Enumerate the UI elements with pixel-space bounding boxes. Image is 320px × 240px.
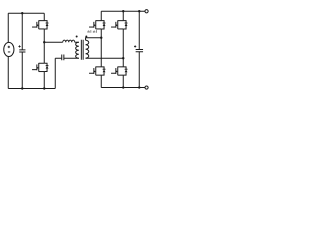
wire: Q5 source to bottom rail xyxy=(100,75,102,87)
wire: Q4 source to leg B midpoint xyxy=(122,29,124,58)
wire: leg B midpoint to Q6 xyxy=(122,58,124,67)
transistor Q3 xyxy=(89,20,105,29)
plus mark near C1 xyxy=(18,45,20,47)
plus mark of source xyxy=(8,46,10,48)
polarity dot secondary xyxy=(85,35,87,37)
plus mark near Co xyxy=(134,45,136,47)
wire: Q4 drain lead xyxy=(122,11,124,20)
node: Q2 bottom rail junction xyxy=(43,87,45,89)
terminal: output negative xyxy=(145,86,148,89)
node: phase node xyxy=(43,41,45,43)
wire: secondary top to leg A midpoint xyxy=(86,38,102,41)
core lines xyxy=(81,40,83,60)
secondary winding xyxy=(86,40,89,58)
capacitor C1 plates xyxy=(19,50,25,52)
node: top rail Co junction xyxy=(138,10,140,12)
node: rail bottom junction C1 xyxy=(21,87,23,89)
wire: Cr to corner xyxy=(55,57,62,59)
wire: leg A midpoint down to Q5 xyxy=(100,38,102,67)
capacitor Co plates xyxy=(136,49,143,51)
polarity dot primary xyxy=(76,35,78,37)
node: rail top junction xyxy=(21,12,23,14)
wire: left branch vertical (source leads) xyxy=(7,13,9,42)
wire: corner down to bottom rail xyxy=(54,58,56,88)
wire: phase to inductor xyxy=(44,41,63,43)
node: top rail leg B junction xyxy=(122,10,124,12)
capacitor C1 branch wire upper xyxy=(21,13,23,50)
wire: secondary bottom rail xyxy=(101,87,145,89)
wire: Q2 source to bottom rail xyxy=(43,72,45,89)
node: bottom rail leg B junction xyxy=(122,86,124,88)
wire: secondary top rail xyxy=(101,10,145,12)
wire: primary bottom return xyxy=(64,57,79,59)
capacitor Co branch upper xyxy=(138,11,140,49)
transistor Q5 xyxy=(89,67,105,76)
wire: Q1 source to phase node xyxy=(43,29,45,63)
node: leg B midpoint xyxy=(122,57,124,59)
inductor Lr xyxy=(63,40,75,42)
wire: bottom rail (primary) xyxy=(8,88,55,90)
transistor Q1 xyxy=(32,20,48,29)
node: bottom rail Co junction xyxy=(138,86,140,88)
dc source V1 xyxy=(4,42,14,56)
wire: Q6 source to bottom rail xyxy=(122,75,124,87)
wire: secondary bottom to leg B midpoint xyxy=(86,57,124,59)
transistor Q2 xyxy=(32,63,48,72)
wire: Q3 source to midpoint xyxy=(100,29,102,38)
capacitor C1 branch wire lower xyxy=(21,52,23,88)
terminal: output positive xyxy=(145,10,148,13)
capacitor Cr plates xyxy=(62,54,64,60)
wire: primary top rail xyxy=(8,12,44,14)
transistor Q6 xyxy=(111,67,127,76)
node: leg A midpoint xyxy=(100,37,102,39)
wire: inductor to primary winding xyxy=(75,41,79,43)
transistor Q4 xyxy=(111,20,127,29)
wire: Q3 drain lead xyxy=(100,11,102,20)
label 1:n turns ratio xyxy=(88,30,97,33)
wire: Q1 drain lead xyxy=(43,13,45,20)
primary winding xyxy=(76,42,79,58)
minus mark of source xyxy=(8,51,10,53)
capacitor Co branch lower xyxy=(138,52,140,88)
